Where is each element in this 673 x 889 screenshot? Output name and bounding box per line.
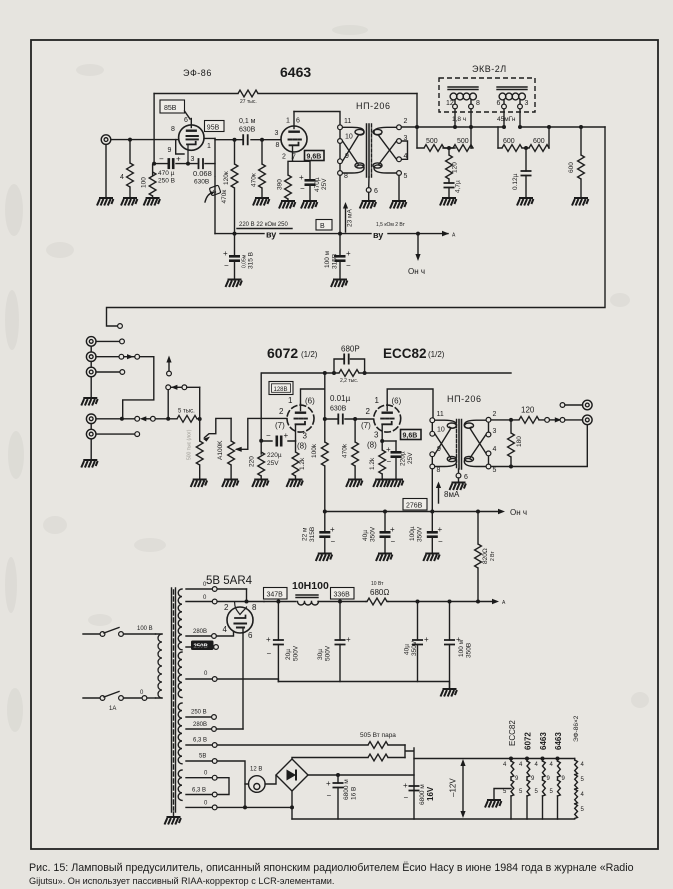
svg-text:Он ч: Он ч bbox=[408, 267, 425, 276]
capacitor C6 100m 315V bbox=[339, 234, 341, 255]
bus nodes bbox=[415, 125, 419, 129]
svg-text:8: 8 bbox=[437, 467, 441, 474]
svg-text:6072: 6072 bbox=[524, 732, 533, 750]
T2 core bbox=[459, 420, 462, 470]
jack J5 bbox=[86, 414, 96, 424]
tap 0 bridge bbox=[186, 806, 212, 808]
resistor 120 shunt bbox=[448, 148, 450, 155]
svg-text:−: − bbox=[327, 791, 332, 800]
capacitor 40u 350V mid bbox=[384, 512, 386, 532]
wire coupling line bbox=[215, 138, 281, 139]
wire bridge right cap1 bbox=[308, 774, 414, 776]
feedback capacitor 680P bbox=[334, 359, 365, 373]
wire V5 plate2 down bbox=[242, 633, 244, 729]
paper texture blobs bbox=[5, 25, 649, 732]
capacitor 40u 350V psu bbox=[417, 602, 419, 641]
svg-text:(6): (6) bbox=[305, 397, 315, 406]
resistor R2 100 bbox=[152, 165, 154, 175]
transformer T1 bbox=[340, 124, 408, 188]
wire lamp to bridge bbox=[245, 776, 276, 785]
svg-text:8: 8 bbox=[171, 126, 175, 133]
svg-text:(8): (8) bbox=[367, 441, 377, 450]
svg-text:НП-206: НП-206 bbox=[356, 101, 391, 111]
svg-text:+: + bbox=[390, 525, 395, 534]
svg-text:470к: 470к bbox=[251, 173, 258, 187]
switch upper throw bbox=[560, 403, 565, 408]
svg-text:11: 11 bbox=[344, 118, 351, 125]
svg-text:22 м: 22 м bbox=[302, 527, 309, 541]
capacitor 20u 500V bbox=[277, 602, 279, 641]
ground C4 bbox=[301, 201, 317, 209]
svg-text:40µ: 40µ bbox=[362, 530, 369, 541]
resistor 27k feed bbox=[238, 90, 258, 97]
switch wiper arrow bbox=[168, 360, 170, 371]
ground R5 bbox=[279, 201, 295, 209]
svg-text:2: 2 bbox=[366, 407, 371, 416]
svg-text:100µ: 100µ bbox=[409, 526, 416, 541]
svg-text:3: 3 bbox=[303, 432, 308, 441]
bridge rectifier bbox=[276, 759, 308, 791]
svg-text:6: 6 bbox=[296, 118, 300, 125]
svg-text:347В: 347В bbox=[267, 592, 284, 599]
svg-text:(6): (6) bbox=[392, 397, 402, 406]
svg-text:630В: 630В bbox=[239, 127, 256, 134]
svg-text:4,7µ: 4,7µ bbox=[455, 180, 462, 193]
svg-text:600: 600 bbox=[568, 162, 575, 173]
wire heater top bus bbox=[414, 758, 575, 760]
svg-text:–12V: –12V bbox=[449, 778, 458, 797]
voltage box 336V bbox=[331, 588, 355, 600]
svg-text:350В: 350В bbox=[466, 643, 473, 658]
resistor 600 b bbox=[525, 147, 549, 149]
svg-text:820Ω: 820Ω bbox=[482, 548, 489, 564]
resistor 180 shunt bbox=[510, 420, 512, 433]
svg-text:−: − bbox=[266, 431, 271, 440]
ground R1 bbox=[121, 198, 137, 206]
T2 right winding bbox=[464, 420, 486, 428]
svg-text:500V: 500V bbox=[325, 645, 332, 661]
svg-text:+: + bbox=[284, 431, 289, 440]
svg-text:220µ: 220µ bbox=[400, 451, 407, 466]
tap 0 top b bbox=[186, 601, 212, 603]
tube V1 EF86 pentode bbox=[176, 119, 204, 164]
svg-text:−: − bbox=[346, 261, 351, 270]
T1 right cross wires bbox=[379, 136, 397, 164]
svg-text:ЭФ-86×2: ЭФ-86×2 bbox=[573, 715, 580, 742]
svg-text:600: 600 bbox=[533, 138, 545, 145]
resistor 500 b bbox=[443, 147, 473, 149]
svg-text:8: 8 bbox=[276, 142, 280, 149]
wire T1 pin8 down to bus bbox=[339, 175, 341, 233]
potentiometer A100K bbox=[230, 418, 232, 441]
svg-text:20µ: 20µ bbox=[285, 649, 292, 660]
svg-text:2: 2 bbox=[282, 154, 286, 161]
wire vu bus bbox=[215, 233, 448, 235]
node 120k top bbox=[233, 138, 237, 142]
wire ground rail psu bbox=[278, 682, 449, 689]
svg-text:30µ: 30µ bbox=[317, 649, 324, 660]
capacitor 0.01u 630V bbox=[338, 414, 343, 425]
wire 5AR4 heater right bbox=[246, 589, 248, 602]
wire cathode node bbox=[154, 163, 215, 165]
svg-text:−: − bbox=[224, 261, 229, 270]
svg-text:+: + bbox=[346, 635, 351, 644]
ground shunt2 bbox=[517, 198, 533, 206]
ground jacks top bbox=[81, 398, 97, 406]
nodes A rail bbox=[276, 600, 280, 604]
resistor 600 a bbox=[498, 147, 527, 149]
tap 6.3V heater rail bbox=[186, 744, 212, 746]
capacitor C1 470u 250V bbox=[168, 158, 175, 169]
svg-text:680Ω: 680Ω bbox=[370, 588, 389, 597]
ground 22m bbox=[316, 554, 332, 562]
capacitor 0.12u bbox=[525, 148, 527, 171]
A100K wiper wire to grid bbox=[237, 418, 287, 449]
svg-text:1: 1 bbox=[375, 396, 380, 405]
wire wiper contact to pot feed bbox=[168, 387, 200, 419]
svg-text:1,5 кОм 2 Вт: 1,5 кОм 2 Вт bbox=[376, 222, 406, 228]
svg-text:8: 8 bbox=[476, 100, 480, 107]
svg-text:0.068: 0.068 bbox=[193, 169, 212, 178]
svg-text:+: + bbox=[266, 635, 271, 644]
svg-text:630В: 630В bbox=[330, 406, 347, 413]
feedback resistor 2.2k bbox=[334, 372, 365, 374]
svg-text:ву: ву bbox=[266, 230, 276, 240]
svg-text:4: 4 bbox=[493, 446, 497, 453]
wire V3 cathode line bbox=[261, 440, 295, 442]
capacitor 100u 350V mid bbox=[431, 512, 433, 532]
svg-text:0,1 м: 0,1 м bbox=[239, 118, 256, 125]
pot1 wiper wire bbox=[205, 418, 232, 437]
node bus On ch bbox=[416, 232, 420, 236]
jack J3 bbox=[86, 352, 96, 362]
ground C5 bbox=[226, 280, 242, 288]
voltage tag 250V inverse bbox=[191, 641, 214, 651]
resistor 5 Om 5W b bbox=[368, 754, 388, 761]
svg-text:4: 4 bbox=[404, 153, 408, 160]
svg-text:5: 5 bbox=[493, 467, 497, 474]
ground R2 bbox=[144, 198, 160, 206]
svg-text:2,2 тыс.: 2,2 тыс. bbox=[340, 378, 358, 384]
resistor 680 Om bbox=[366, 601, 367, 603]
svg-text:45мГн: 45мГн bbox=[497, 116, 516, 123]
svg-text:ву: ву bbox=[373, 230, 383, 240]
heater column 6463a bbox=[541, 757, 545, 761]
tap 280V top bbox=[186, 635, 212, 637]
wire On ch arrow bbox=[417, 234, 419, 256]
resistor 1.2k V3 bbox=[295, 441, 297, 452]
node 336V bbox=[338, 600, 342, 604]
T1 pin6 stub bbox=[368, 177, 370, 188]
jack J4 bbox=[86, 367, 96, 377]
svg-text:100 В: 100 В bbox=[137, 626, 153, 632]
ground 220u V4 bbox=[387, 480, 403, 488]
wire T2 pin8 down to bus bbox=[431, 469, 433, 512]
voltage box 85V bbox=[160, 100, 185, 113]
svg-text:2 Вт: 2 Вт bbox=[490, 551, 496, 561]
svg-text:2: 2 bbox=[404, 118, 408, 125]
svg-text:1: 1 bbox=[288, 396, 293, 405]
svg-text:250 В: 250 В bbox=[191, 710, 207, 716]
terminal stage2 feed bbox=[118, 324, 123, 329]
svg-text:470к: 470к bbox=[221, 190, 228, 204]
svg-text:9: 9 bbox=[168, 147, 172, 154]
svg-text:6: 6 bbox=[374, 188, 378, 195]
svg-text:12 В: 12 В bbox=[250, 767, 262, 773]
selector contact arrow J5 bbox=[144, 418, 151, 420]
ground A100K bbox=[222, 480, 238, 488]
svg-text:(7): (7) bbox=[275, 421, 285, 430]
wire A rail bbox=[264, 601, 494, 603]
svg-text:40µ: 40µ bbox=[404, 644, 411, 655]
svg-text:6: 6 bbox=[248, 631, 253, 640]
input jack J1 bbox=[101, 135, 111, 145]
potentiometer 500k log bbox=[196, 441, 203, 465]
svg-text:500: 500 bbox=[426, 138, 438, 145]
wire heater minus bus bbox=[292, 818, 575, 820]
svg-text:2: 2 bbox=[493, 411, 497, 418]
annotation -12V bbox=[462, 764, 464, 813]
selector contact arrow J3 bbox=[124, 356, 135, 358]
svg-text:280В: 280В bbox=[193, 629, 207, 635]
svg-text:−: − bbox=[159, 155, 164, 164]
resistor 600 load bbox=[580, 127, 582, 155]
resistor 1.2k V4 bbox=[381, 441, 383, 450]
wire L1 stubs bbox=[455, 109, 471, 148]
selector wiper contact pair bbox=[166, 385, 171, 390]
transformer T2 bbox=[432, 420, 488, 474]
svg-text:+: + bbox=[438, 525, 443, 534]
wire bus 276 bbox=[325, 511, 500, 513]
ground C6 bbox=[331, 280, 347, 288]
resistor R5 390 bbox=[285, 175, 292, 199]
potentiometer 470k (B) bbox=[214, 177, 216, 234]
ground T2 pin6 bbox=[458, 478, 460, 482]
svg-text:8мА: 8мА bbox=[444, 490, 460, 499]
svg-text:10: 10 bbox=[345, 134, 353, 141]
svg-text:680P: 680P bbox=[341, 345, 360, 354]
svg-text:6: 6 bbox=[184, 117, 188, 124]
svg-text:10 Вт: 10 Вт bbox=[371, 581, 384, 587]
svg-text:3: 3 bbox=[374, 431, 379, 440]
wire L2 stubs bbox=[498, 109, 549, 148]
inductor L2 45mH bbox=[497, 87, 527, 104]
svg-text:220: 220 bbox=[249, 456, 256, 467]
svg-text:−: − bbox=[300, 184, 305, 193]
resistor R4 470k grid bbox=[260, 138, 264, 142]
capacitor 220u 25V V3 bbox=[276, 436, 283, 447]
svg-text:315В: 315В bbox=[309, 527, 316, 542]
switch contact out bbox=[545, 418, 550, 423]
tube V5 5AR4 bbox=[227, 602, 253, 633]
wire filter bus bbox=[401, 126, 605, 128]
svg-text:−: − bbox=[387, 457, 392, 466]
nodes bus 276 bbox=[323, 510, 327, 514]
svg-text:5В 5AR4: 5В 5AR4 bbox=[206, 575, 253, 587]
T1 right winding bbox=[374, 127, 397, 135]
svg-text:6463: 6463 bbox=[554, 732, 563, 750]
wire V4 cathode bbox=[382, 440, 396, 442]
T2 left winding bbox=[435, 420, 457, 428]
svg-text:220µ: 220µ bbox=[267, 452, 282, 459]
mains switch upper bbox=[83, 633, 100, 635]
svg-text:500 тыс (лог): 500 тыс (лог) bbox=[187, 429, 193, 460]
svg-text:3: 3 bbox=[525, 100, 529, 107]
node shunt1 bbox=[447, 146, 451, 150]
svg-text:5 тыс.: 5 тыс. bbox=[178, 409, 195, 415]
voltage box 95V bbox=[205, 121, 225, 132]
arrow 8mA bbox=[438, 486, 440, 503]
svg-text:6800 м: 6800 м bbox=[343, 779, 350, 800]
capacitor 30u 500V bbox=[339, 602, 341, 641]
resistor 470k grid V4 bbox=[353, 417, 357, 421]
wire V2 cathode bbox=[288, 158, 310, 179]
PT core bbox=[172, 588, 176, 812]
svg-text:280В: 280В bbox=[193, 722, 207, 728]
dashed module box bbox=[439, 78, 535, 112]
svg-text:315 В: 315 В bbox=[248, 252, 255, 269]
svg-text:505 Вт пара: 505 Вт пара bbox=[360, 732, 396, 739]
svg-text:120: 120 bbox=[452, 162, 459, 173]
svg-text:0.01µ: 0.01µ bbox=[330, 394, 351, 403]
svg-text:336В: 336В bbox=[334, 592, 351, 599]
tube V3 6072 bbox=[287, 404, 314, 441]
node bus/120k bbox=[233, 232, 237, 236]
tap 0 jumper a bbox=[186, 777, 212, 779]
voltage box 9.6V bbox=[305, 151, 325, 161]
wire V1 plate bbox=[204, 138, 215, 176]
svg-text:470k: 470k bbox=[342, 443, 349, 458]
voltage box 9.6V stage2 bbox=[401, 430, 422, 440]
svg-text:350V: 350V bbox=[417, 526, 424, 542]
svg-text:НП-206: НП-206 bbox=[447, 394, 482, 404]
svg-text:23 мА: 23 мА bbox=[347, 208, 354, 227]
capacitor C4 470u 25V bbox=[305, 179, 316, 186]
ground 1.2k V3 bbox=[287, 480, 303, 488]
svg-text:100 м: 100 м bbox=[324, 250, 331, 268]
svg-text:500: 500 bbox=[457, 138, 469, 145]
svg-text:+: + bbox=[403, 781, 408, 790]
wire pot feed down bbox=[199, 387, 201, 441]
power transformer PT primary bbox=[156, 634, 163, 698]
svg-text:ЭКВ-2Л: ЭКВ-2Л bbox=[472, 64, 507, 74]
svg-text:2: 2 bbox=[279, 407, 284, 416]
resistor 500 a bbox=[417, 147, 455, 149]
svg-text:6463: 6463 bbox=[539, 732, 548, 750]
ground 600 load bbox=[572, 198, 588, 206]
choke 10H100 bbox=[296, 595, 319, 605]
T2 pin6 stub bbox=[458, 469, 460, 473]
svg-text:+: + bbox=[326, 779, 331, 788]
wire V4 plate to T2 bbox=[387, 389, 433, 418]
svg-text:2: 2 bbox=[224, 603, 229, 612]
svg-text:9: 9 bbox=[437, 446, 441, 453]
capacitor C5 22m 315V bbox=[234, 234, 236, 255]
tube V2 6463a triode bbox=[281, 112, 307, 159]
svg-text:16V: 16V bbox=[426, 786, 435, 801]
ground 470k V4 bbox=[346, 480, 362, 488]
svg-text:(8): (8) bbox=[297, 442, 307, 451]
jack J2 bbox=[86, 337, 96, 347]
svg-text:9,6В: 9,6В bbox=[403, 433, 418, 440]
heater column ECC82 bbox=[509, 757, 513, 761]
svg-text:1.2k: 1.2k bbox=[299, 457, 306, 470]
wire screen riser bbox=[153, 94, 155, 164]
wire output return bbox=[491, 425, 587, 467]
node cathode bbox=[152, 162, 156, 166]
ground heater bbox=[494, 789, 511, 800]
svg-text:ECC82: ECC82 bbox=[383, 346, 427, 361]
svg-text:9,6В: 9,6В bbox=[307, 154, 322, 161]
PT core ground bbox=[173, 812, 175, 816]
heater column 6072 bbox=[525, 757, 529, 761]
resistor 100k plate load bbox=[321, 442, 328, 466]
svg-text:350V: 350V bbox=[370, 526, 377, 542]
feedback line bbox=[262, 372, 511, 374]
svg-text:220 В 22 кОм 250: 220 В 22 кОм 250 bbox=[239, 222, 288, 228]
lamp 12V bbox=[248, 776, 265, 793]
svg-text:−: − bbox=[391, 537, 396, 546]
svg-text:85В: 85В bbox=[164, 105, 177, 112]
svg-text:1.2k: 1.2k bbox=[369, 457, 376, 470]
svg-text:11: 11 bbox=[437, 411, 444, 418]
wire V2 plate to T1 bbox=[294, 112, 340, 125]
svg-text:(7): (7) bbox=[361, 421, 371, 430]
wire V3 plate path bbox=[301, 373, 325, 442]
capacitor 6800m 16V b bbox=[409, 786, 420, 791]
wire J5 J6 ground link bbox=[90, 424, 92, 459]
ground 1.2k V4 bbox=[373, 480, 389, 488]
svg-text:Он ч: Он ч bbox=[510, 508, 527, 517]
wire long feed to stage 2 bbox=[107, 127, 606, 326]
coupling line V3 to V4 bbox=[325, 418, 374, 420]
tap 0 CT bbox=[186, 678, 212, 680]
voltage box 276V bbox=[403, 499, 427, 511]
svg-text:+: + bbox=[424, 635, 429, 644]
ground shunt1 bbox=[440, 198, 456, 206]
jack J6 bbox=[86, 429, 96, 439]
T2 left cross wires bbox=[435, 429, 451, 458]
svg-text:+: + bbox=[299, 173, 304, 182]
svg-text:25V: 25V bbox=[267, 460, 279, 467]
mains line lower bbox=[83, 697, 100, 699]
svg-text:5: 5 bbox=[404, 173, 408, 180]
svg-text:470 µ: 470 µ bbox=[158, 170, 175, 177]
svg-text:1А: 1А bbox=[109, 706, 116, 712]
svg-text:Рис. 15: Ламповый предусилител: Рис. 15: Ламповый предусилитель, описанн… bbox=[29, 862, 634, 874]
tap 6.3V jumper b bbox=[186, 794, 212, 796]
resistor R1 4 bbox=[129, 140, 131, 163]
svg-text:+: + bbox=[223, 249, 228, 258]
node bus/T1 bbox=[338, 232, 342, 236]
wire bridge bottom bbox=[291, 791, 293, 819]
resistor 5k bbox=[177, 415, 197, 422]
svg-text:315В: 315В bbox=[332, 254, 339, 269]
svg-text:350V: 350V bbox=[411, 640, 418, 656]
svg-text:−: − bbox=[404, 793, 409, 802]
svg-text:120: 120 bbox=[521, 406, 535, 415]
svg-text:27 тыс.: 27 тыс. bbox=[240, 99, 257, 105]
svg-text:600: 600 bbox=[503, 138, 515, 145]
svg-text:100: 100 bbox=[141, 177, 148, 188]
heater column EF86 pair bbox=[574, 759, 576, 761]
svg-text:(1/2): (1/2) bbox=[428, 350, 445, 359]
svg-text:6: 6 bbox=[497, 100, 501, 107]
capacitor 22m 315V bbox=[324, 512, 326, 532]
T1 left jumpers bbox=[339, 130, 341, 171]
ground 40u mid bbox=[376, 554, 392, 562]
arrow 23mA bbox=[345, 206, 347, 232]
